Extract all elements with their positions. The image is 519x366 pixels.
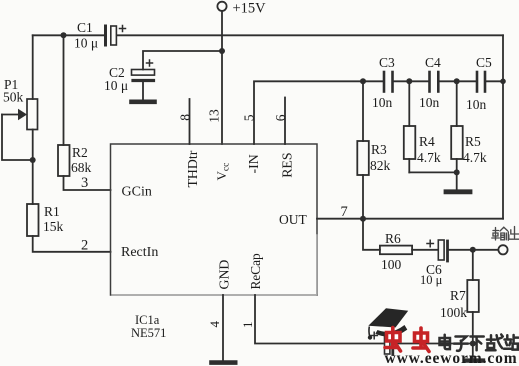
resistor R7 [467,250,479,359]
capacitor C4 [409,72,456,92]
resistor R3 [357,81,369,218]
power terminal +15V [217,2,226,11]
svg-text:4: 4 [207,321,222,328]
resistor R4 [404,81,416,172]
character 下 [471,337,484,351]
ground (bottom right) [465,358,483,362]
character 子 [454,337,468,351]
watermark graduation cap [368,308,408,339]
svg-text:10 μ: 10 μ [104,78,128,93]
svg-text:13: 13 [207,109,222,123]
node ground junction [454,169,460,175]
wire +15V vertical to pin 13 [221,12,223,144]
svg-text:NE571: NE571 [131,326,166,340]
node output junction [470,247,476,253]
svg-text:R6: R6 [385,231,401,246]
wire top rail left segment [33,34,105,36]
svg-text:10n: 10n [419,95,440,110]
svg-text:RES: RES [279,152,294,177]
output terminal [498,245,507,254]
resistor R5 [451,81,463,172]
svg-text:10 μ: 10 μ [420,273,443,287]
node C4 left junction [406,78,412,84]
wire pin 8 stub [189,99,191,144]
capacitor C2 [132,60,155,100]
resistor R1 [27,160,111,252]
svg-text:5: 5 [242,114,257,121]
node R2 top junction [61,32,67,38]
svg-text:OUT: OUT [279,212,307,227]
svg-text:R7: R7 [450,288,466,303]
character 站 [504,335,518,350]
resistor R6 [380,246,412,255]
wire pin 6 stub [284,98,286,145]
svg-text:4.7k: 4.7k [463,150,487,165]
wire pin 4 GND [222,295,224,361]
potentiometer P1 [2,35,38,160]
character 电 [440,335,451,349]
svg-text:10 μ: 10 μ [74,36,98,51]
svg-text:15k: 15k [43,219,64,234]
wire R4-R5 bottom [409,171,456,173]
svg-text:100k: 100k [440,305,467,320]
svg-text:8: 8 [178,114,193,121]
svg-text:82k: 82k [370,158,391,173]
wire pin 1 ReCap [255,295,383,344]
svg-text:10n: 10n [466,97,487,112]
svg-text:10n: 10n [372,95,393,110]
svg-text:ReCap: ReCap [248,253,263,290]
watermark 虫虫 red characters [385,328,429,352]
svg-text:100: 100 [381,257,402,272]
svg-text:RectIn: RectIn [121,245,158,260]
capacitor C5 [457,72,503,92]
svg-text:2: 2 [81,238,88,254]
wire pin 5 [254,81,363,144]
svg-text:C1: C1 [77,20,93,35]
svg-text:R1: R1 [44,204,60,219]
svg-text:3: 3 [81,175,88,191]
svg-text:C3: C3 [379,55,395,70]
wire R3 to R6 [363,219,380,250]
wire top rail right segment [118,34,504,36]
node top right corner [500,79,506,85]
capacitor C6 [427,240,498,261]
node ReCap/R7 junction [470,341,476,347]
wire ground stub [456,172,458,189]
node P1 wiper junction [30,157,36,163]
capacitor C3 [363,72,409,92]
svg-text:C4: C4 [425,55,441,70]
node C5 left junction [454,78,460,84]
watermark 电子下载站 [440,335,519,351]
svg-text:R3: R3 [371,142,387,157]
wire C2 branch [143,51,222,70]
svg-text:IC1a: IC1a [135,313,160,327]
ground (GND pin) [212,360,236,365]
IC U1 IC1a NE571 compander box [111,144,318,295]
capacitor C1 [106,26,126,46]
node +15V/C2 junction [219,48,225,54]
svg-text:50k: 50k [3,90,24,105]
svg-text:7: 7 [341,204,348,220]
label 输出 (output) [492,227,519,241]
svg-text:GND: GND [216,260,231,290]
svg-text:THDtr: THDtr [185,150,200,187]
resistor R2 [58,35,111,190]
svg-text:R4: R4 [419,134,435,149]
svg-text:6: 6 [273,114,288,121]
svg-text:-IN: -IN [246,154,261,173]
node C3 left junction [360,78,366,84]
svg-text:R5: R5 [465,134,481,149]
wire R6 to C6 [412,249,437,251]
wire OUT pin 7 [317,218,503,220]
ground (C2) [132,100,155,105]
svg-text:68k: 68k [71,160,92,175]
character 输 [492,228,500,241]
svg-text:www.eeworm.com: www.eeworm.com [385,350,518,366]
svg-text:4.7k: 4.7k [417,150,441,165]
capacitor C7 on ReCap line [371,332,473,354]
node OUT junction [360,216,366,222]
svg-text:+15V: +15V [233,0,267,16]
ground (R4/R5) [446,189,470,194]
character 载 [486,335,503,351]
svg-text:C5: C5 [476,55,492,70]
svg-text:GCin: GCin [122,185,152,200]
wire right rail (feedback) [502,35,504,218]
character 出 [509,227,519,240]
svg-text:R2: R2 [72,145,88,160]
svg-text:1: 1 [240,322,255,329]
